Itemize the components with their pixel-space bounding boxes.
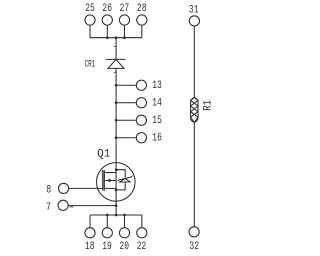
wire tick artifact on pin 7 wire [70, 206, 74, 208]
transistor Q1 [97, 163, 136, 202]
wire node 16 to Q1 drain [115, 138, 117, 170]
svg-text:16: 16 [152, 133, 162, 145]
pin 8 [59, 183, 103, 193]
pin 20 [119, 215, 129, 238]
resistor R1 [191, 98, 198, 123]
junction top bus pin 26 [106, 36, 109, 39]
node 15 [115, 115, 147, 125]
Q1 body diode branch wire [116, 170, 125, 178]
pin 31 [189, 16, 199, 26]
svg-text:13: 13 [152, 80, 162, 92]
wire tick artifact near CR1 cathode [114, 45, 116, 47]
svg-text:26: 26 [102, 3, 112, 15]
junction bottom bus pin 20 [123, 214, 126, 217]
svg-text:22: 22 [137, 241, 147, 253]
svg-text:28: 28 [137, 3, 147, 15]
junction top bus pin 27 [123, 36, 126, 39]
svg-text:R1: R1 [203, 100, 215, 111]
wire R1 to pin 32 [193, 122, 195, 227]
svg-text:19: 19 [102, 241, 112, 253]
pin 19 [102, 215, 112, 238]
svg-text:15: 15 [152, 115, 162, 127]
pin 27 [119, 15, 129, 38]
pin 28 [137, 15, 147, 38]
junction pin 7 node [115, 204, 118, 207]
svg-text:18: 18 [85, 241, 95, 253]
Q1 gate bar [102, 170, 104, 191]
wire node 15 to node 16 [115, 120, 117, 138]
wire tick artifact below CR1 [114, 71, 116, 73]
wire bus to CR1 cathode [115, 38, 117, 60]
node 13 [115, 80, 147, 90]
node 16 [115, 133, 147, 143]
svg-text:32: 32 [189, 241, 199, 253]
Q1 source channel stub [105, 187, 116, 189]
node 14 [115, 98, 147, 108]
wire top bus [90, 37, 142, 39]
svg-text:Q1: Q1 [97, 149, 110, 161]
svg-text:20: 20 [119, 241, 129, 253]
Q1 body circle [97, 163, 136, 202]
svg-text:7: 7 [46, 202, 51, 214]
pin 7 [58, 200, 116, 210]
svg-text:27: 27 [120, 3, 130, 15]
wire node 13 to node 14 [115, 85, 117, 103]
wire CR1 anode to node 13 [115, 68, 117, 85]
wire node 14 to node 15 [115, 103, 117, 121]
svg-text:25: 25 [85, 3, 95, 15]
Q1 body zener diode [118, 176, 132, 181]
svg-text:8: 8 [46, 184, 51, 196]
pin 18 [85, 215, 95, 238]
pin 32 [189, 227, 199, 237]
Q1 internal drain-source line [115, 170, 117, 190]
junction Q1 drain node [115, 168, 118, 171]
wire Q1 source to bottom bus [115, 190, 117, 215]
pin 22 [137, 215, 147, 238]
Q1 drain channel stub [105, 172, 116, 174]
svg-text:CR1: CR1 [85, 60, 96, 71]
svg-text:14: 14 [152, 98, 162, 110]
wire bottom bus [90, 214, 142, 216]
diode CR1 [106, 59, 126, 68]
junction bottom bus pin 19 [106, 214, 109, 217]
Q1 body channel stub with arrow [105, 179, 116, 181]
junction top bus center [115, 36, 118, 39]
wire pin 31 to R1 [193, 26, 195, 98]
pin 25 [85, 15, 95, 38]
junction bottom bus center [115, 214, 118, 217]
pin 26 [102, 15, 112, 38]
junction Q1 source node [115, 189, 118, 192]
svg-text:31: 31 [189, 4, 199, 16]
